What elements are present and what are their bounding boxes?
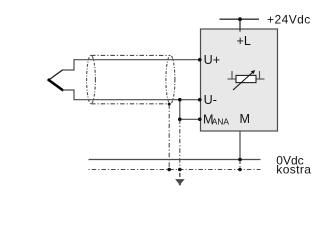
svg-text:+L: +L xyxy=(237,34,251,48)
svg-text:+24Vdc: +24Vdc xyxy=(267,13,311,27)
svg-text:U+: U+ xyxy=(204,53,220,67)
svg-text:kostra: kostra xyxy=(276,163,311,177)
svg-text:M: M xyxy=(240,112,251,126)
svg-text:ANA: ANA xyxy=(212,117,230,127)
svg-text:U-: U- xyxy=(204,93,217,107)
